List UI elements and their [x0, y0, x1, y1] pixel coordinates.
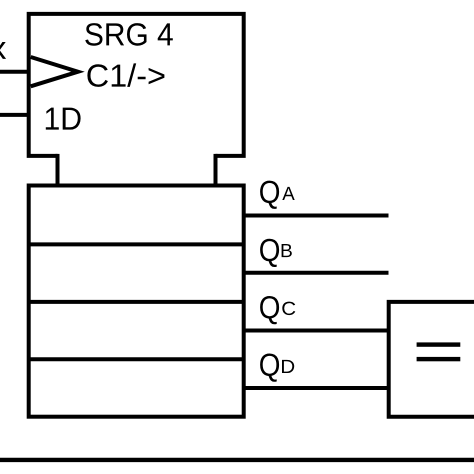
- control block right neck: [214, 154, 218, 188]
- bottom bus wire (clipped at both image edges): [0, 458, 474, 462]
- shift register U1 common control block (SRG 4) outline: [29, 14, 244, 156]
- cell divider 1: [29, 242, 244, 246]
- output wire QC: [244, 329, 389, 333]
- control block left neck: [56, 154, 60, 188]
- label = (equality sign upper bar): [417, 342, 461, 346]
- comparator U2 box (clipped at right image edge): [389, 302, 474, 417]
- partial clock net label (clipped at left image edge): [0, 42, 6, 59]
- cell divider 2: [29, 300, 244, 304]
- label Q of QA: [260, 181, 279, 209]
- clock input wire C1: [0, 70, 29, 74]
- label SRG 4: [85, 23, 173, 46]
- label Q of QB: [260, 239, 279, 267]
- label Q of QC: [260, 296, 279, 324]
- subscript D of QD: [282, 360, 294, 373]
- label = (equality sign lower bar): [417, 357, 461, 361]
- output wire QB: [244, 271, 389, 275]
- output wire QA: [244, 214, 389, 218]
- label 1D: [46, 108, 81, 130]
- subscript C of QC: [282, 302, 295, 316]
- dynamic clock input triangle: [31, 57, 78, 86]
- subscript A of QA: [282, 187, 294, 200]
- label C1/->: [87, 63, 164, 87]
- output wire QD: [244, 386, 389, 390]
- cell divider 3: [29, 357, 244, 361]
- subscript B of QB: [282, 244, 292, 257]
- label Q of QD: [260, 354, 279, 382]
- register body (4-bit cell array): [29, 186, 244, 417]
- data input wire 1D: [0, 113, 29, 117]
